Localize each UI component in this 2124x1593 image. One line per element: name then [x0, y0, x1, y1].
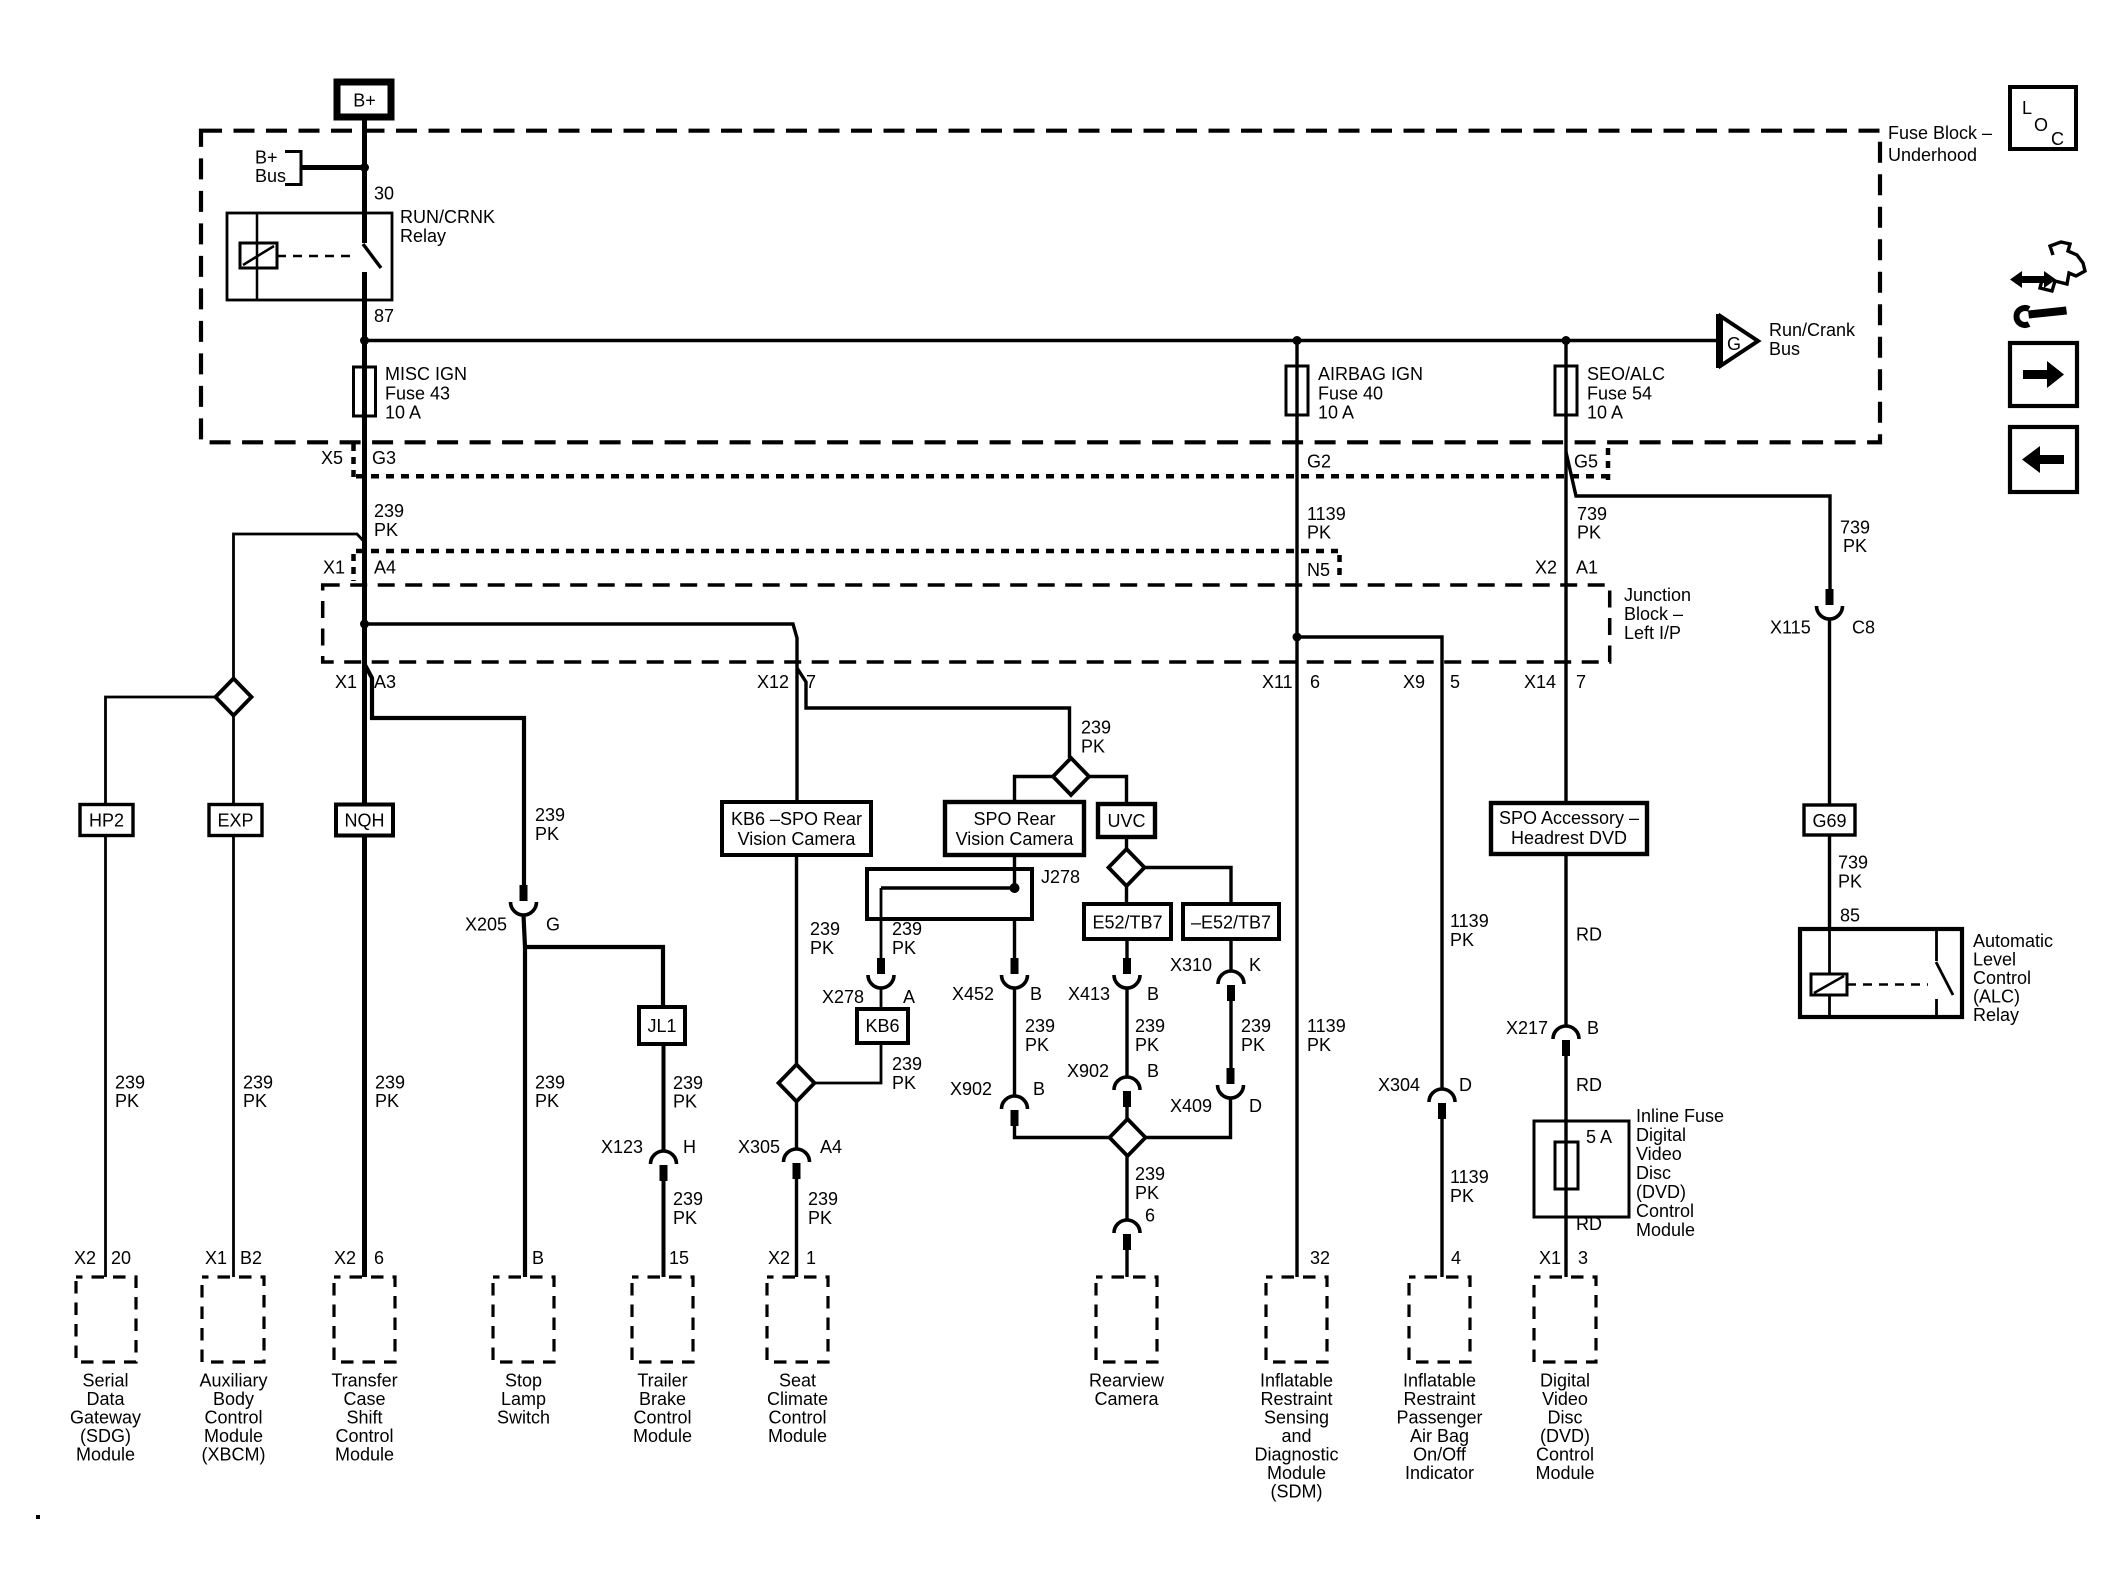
svg-text:739: 739: [1840, 518, 1870, 538]
svg-text:X2: X2: [768, 1248, 790, 1268]
svg-text:Module: Module: [335, 1445, 394, 1465]
svg-text:J278: J278: [1041, 867, 1080, 887]
svg-text:SEO/ALC: SEO/ALC: [1587, 364, 1665, 384]
junction block left I/P dashed box: [323, 585, 1610, 662]
svg-text:Headrest DVD: Headrest DVD: [1511, 828, 1627, 848]
NQH box: [336, 805, 393, 836]
fuse block underhood dashed box: [201, 131, 1880, 443]
svg-text:Trailer: Trailer: [637, 1371, 687, 1391]
svg-text:Digital: Digital: [1636, 1125, 1686, 1145]
UVC box: [1098, 804, 1155, 837]
svg-text:Module: Module: [768, 1426, 827, 1446]
svg-text:X452: X452: [952, 984, 994, 1004]
svg-text:Restraint: Restraint: [1403, 1389, 1475, 1409]
svg-text:X1: X1: [1539, 1248, 1561, 1268]
svg-text:X217: X217: [1506, 1018, 1548, 1038]
svg-text:Video: Video: [1636, 1144, 1682, 1164]
junction dot airbag branch: [1293, 633, 1302, 642]
ALC relay switch: [1936, 929, 1953, 1017]
wire: J278 main output down to X452: [1013, 919, 1016, 959]
svg-text:X115: X115: [1770, 618, 1811, 638]
wire 739 PK label (ALC branch): [1840, 518, 1870, 557]
svg-text:X1: X1: [205, 1248, 227, 1268]
svg-text:(SDM): (SDM): [1271, 1482, 1323, 1502]
diamond seat splice: [779, 1065, 815, 1102]
SPO accessory headrest DVD box: [1491, 803, 1647, 854]
svg-text:PK: PK: [808, 1208, 832, 1228]
wire: rearview connector to module: [1125, 1248, 1128, 1277]
svg-text:15: 15: [669, 1248, 689, 1268]
fuse 40 label: [1318, 364, 1423, 423]
svg-text:Lamp: Lamp: [501, 1389, 546, 1409]
wire: headrest DVD box down to X217: [1564, 854, 1567, 1026]
junction dot seo tap: [1562, 336, 1571, 345]
wire: diamond to HP2: [106, 697, 217, 804]
svg-text:239: 239: [375, 1073, 405, 1093]
svg-text:UVC: UVC: [1107, 811, 1145, 831]
wire: JL1 down to X123: [662, 1044, 666, 1151]
svg-text:PK: PK: [892, 1073, 916, 1093]
svg-text:Inflatable: Inflatable: [1260, 1371, 1333, 1391]
svg-text:X1: X1: [335, 672, 357, 692]
svg-text:B+: B+: [255, 148, 278, 168]
svg-text:6: 6: [1145, 1206, 1155, 1226]
G2 label: [1307, 452, 1331, 472]
svg-text:RD: RD: [1576, 925, 1602, 945]
X5 G3 labels: [321, 448, 396, 468]
svg-text:PK: PK: [1307, 523, 1331, 543]
junction dot in junction block: [360, 620, 369, 629]
svg-text:Body: Body: [213, 1389, 254, 1409]
connector X452 B: [952, 958, 1042, 1004]
svg-text:Fuse Block –: Fuse Block –: [1888, 123, 1992, 143]
wire: relay pin 87 down through MISC IGN fuse to junction block and NQH: [362, 272, 367, 805]
connector X413 B: [1068, 958, 1159, 1004]
svg-text:C: C: [2051, 129, 2064, 149]
wire: SEO/ALC fuse column: [1564, 341, 1567, 805]
exit labels X9 5: [1403, 672, 1460, 692]
svg-text:B2: B2: [240, 1248, 262, 1268]
svg-text:239: 239: [243, 1073, 273, 1093]
svg-text:3: 3: [1578, 1248, 1588, 1268]
svg-text:PK: PK: [673, 1208, 697, 1228]
wire: diamond down to E52/TB7: [1125, 886, 1128, 904]
wire: UVC down to UVC diamond: [1125, 837, 1128, 850]
svg-text:Run/Crank: Run/Crank: [1769, 320, 1856, 340]
dotted connector row 2: [356, 549, 1338, 554]
svg-text:239: 239: [892, 919, 922, 939]
svg-text:7: 7: [1576, 672, 1586, 692]
svg-text:N5: N5: [1307, 560, 1330, 580]
svg-text:Air Bag: Air Bag: [1410, 1426, 1469, 1446]
wire: EXP down to XBCM module: [232, 836, 235, 1278]
wire: KB6 down and left to seat diamond: [815, 1043, 881, 1083]
svg-text:PK: PK: [1081, 737, 1105, 757]
XBCM module box: [202, 1277, 264, 1362]
fuse SEO/ALC 54: [1555, 366, 1577, 415]
inline fuse element: [1555, 1142, 1578, 1189]
pin label B: [532, 1248, 544, 1268]
connector X205 G: [465, 885, 560, 935]
ALC relay label: [1973, 931, 2053, 1025]
inline fuse housing box: [1534, 1121, 1629, 1217]
svg-text:Bus: Bus: [255, 166, 286, 186]
svg-text:PK: PK: [115, 1091, 139, 1111]
svg-text:Restraint: Restraint: [1260, 1389, 1332, 1409]
pin label X1 B2: [205, 1248, 262, 1268]
svg-text:X5: X5: [321, 448, 343, 468]
svg-text:Data: Data: [86, 1389, 125, 1409]
relay dashed actuating link: [277, 255, 357, 258]
svg-text:PK: PK: [1450, 930, 1474, 950]
pin label X2 20: [74, 1248, 131, 1268]
svg-text:239: 239: [892, 1054, 922, 1074]
SPO rear vision camera box: [945, 802, 1084, 855]
SDG module label: [70, 1371, 141, 1465]
svg-text:Gateway: Gateway: [70, 1408, 141, 1428]
svg-text:SPO Rear: SPO Rear: [973, 809, 1055, 829]
pin label 32: [1310, 1248, 1330, 1268]
svg-text:Relay: Relay: [400, 226, 446, 246]
wire: X12 branch jog to camera diamond: [797, 668, 1070, 758]
X1 A4 dotted tick: [351, 554, 356, 581]
svg-text:239: 239: [374, 501, 404, 521]
svg-text:6: 6: [374, 1248, 384, 1268]
svg-text:X12: X12: [757, 672, 789, 692]
diamond rearview splice: [1110, 1119, 1146, 1156]
svg-text:–E52/TB7: –E52/TB7: [1191, 913, 1271, 933]
svg-text:87: 87: [374, 306, 394, 326]
svg-text:10 A: 10 A: [1318, 403, 1354, 423]
svg-text:X1: X1: [323, 558, 345, 578]
svg-text:B: B: [1030, 984, 1042, 1004]
svg-text:PK: PK: [1025, 1035, 1049, 1055]
svg-text:A4: A4: [374, 558, 396, 578]
svg-text:Inline Fuse: Inline Fuse: [1636, 1106, 1724, 1126]
G5 label: [1574, 452, 1598, 472]
X1 A4 labels: [323, 558, 396, 578]
JL1 box: [639, 1007, 685, 1044]
connector row X5 G3 dotted tick: [351, 444, 356, 478]
J278 splice pack: [867, 869, 1032, 919]
svg-text:PK: PK: [1135, 1183, 1159, 1203]
trailer brake module box: [632, 1277, 693, 1362]
wire: X278 to KB6 box: [880, 988, 883, 1009]
svg-text:X413: X413: [1068, 984, 1110, 1004]
wire 239 PK label (X310): [1241, 1016, 1271, 1055]
B+ Bus label: [255, 148, 286, 187]
wire: stop lamp branch from X1 A3: [365, 664, 525, 886]
svg-text:X409: X409: [1170, 1096, 1212, 1116]
svg-text:Control: Control: [1636, 1201, 1694, 1221]
run/crank bus label: [1769, 320, 1856, 359]
svg-text:PK: PK: [243, 1091, 267, 1111]
-E52/TB7 box: [1183, 904, 1279, 939]
stop lamp switch box: [493, 1277, 554, 1362]
relay RUN/CRNK box: [227, 213, 392, 300]
svg-text:X11: X11: [1262, 672, 1293, 692]
svg-text:Seat: Seat: [779, 1371, 816, 1391]
svg-text:1: 1: [806, 1248, 816, 1268]
svg-text:1139: 1139: [1307, 504, 1346, 524]
wire: diamond down to EXP: [232, 716, 235, 805]
wire: J278 left output down to X278: [880, 888, 883, 959]
svg-text:239: 239: [1135, 1016, 1165, 1036]
svg-text:239: 239: [1135, 1164, 1165, 1184]
X2 A1 labels: [1535, 558, 1598, 578]
fuse 54 label: [1587, 364, 1665, 423]
svg-text:Relay: Relay: [1973, 1005, 2019, 1025]
DVD module label: [1535, 1371, 1594, 1484]
wire: X409 to rearview diamond: [1145, 1098, 1231, 1138]
svg-text:Climate: Climate: [767, 1389, 828, 1409]
svg-text:PK: PK: [535, 1091, 559, 1111]
relay label: [400, 207, 495, 246]
connector X305 A4: [738, 1137, 842, 1179]
wire 239 PK label (EXP): [243, 1073, 273, 1112]
svg-text:239: 239: [673, 1073, 703, 1093]
svg-text:B: B: [532, 1248, 544, 1268]
pin label X2 1: [768, 1248, 816, 1268]
connector X902 B mid: [1067, 1061, 1159, 1107]
svg-text:Auxiliary: Auxiliary: [199, 1371, 267, 1391]
wire RD label (mid): [1576, 1075, 1602, 1095]
wire 239 PK label (X278 upper): [892, 919, 922, 958]
N5 dotted tick: [1337, 555, 1342, 581]
svg-text:X310: X310: [1170, 955, 1212, 975]
pin label 15: [669, 1248, 689, 1268]
junction dot run/crank bus: [360, 336, 369, 345]
svg-text:B: B: [1033, 1079, 1045, 1099]
svg-text:Disc: Disc: [1636, 1163, 1671, 1183]
exit labels X12 7: [757, 672, 816, 692]
wire: X902 mid down to rearview diamond: [1125, 1105, 1128, 1121]
svg-text:X2: X2: [1535, 558, 1557, 578]
svg-text:Transfer: Transfer: [331, 1371, 397, 1391]
wire: fuse down to DVD module: [1564, 1189, 1567, 1277]
svg-text:X205: X205: [465, 915, 507, 935]
wire 1139 PK label (SDM): [1307, 1016, 1346, 1055]
svg-text:739: 739: [1577, 504, 1607, 524]
transfer case module label: [331, 1371, 397, 1465]
svg-text:1139: 1139: [1450, 1167, 1489, 1187]
wire: tee to JL1: [525, 947, 663, 1007]
svg-text:RUN/CRNK: RUN/CRNK: [400, 207, 495, 227]
svg-text:239: 239: [535, 1073, 565, 1093]
svg-text:L: L: [2022, 98, 2032, 118]
svg-text:JL1: JL1: [647, 1016, 676, 1036]
svg-text:(XBCM): (XBCM): [202, 1445, 266, 1465]
svg-text:Sensing: Sensing: [1264, 1408, 1329, 1428]
wire: -E52 down to X310: [1229, 939, 1232, 971]
svg-text:PK: PK: [1450, 1186, 1474, 1206]
B+ Bus bracket: [285, 152, 301, 185]
seat climate module label: [767, 1371, 828, 1447]
B+ terminal box: [337, 82, 391, 117]
wire: branch HP2/EXP from X1 A4: [234, 534, 365, 679]
diamond UVC splice: [1109, 849, 1145, 886]
svg-text:Level: Level: [1973, 950, 2016, 970]
wire: diamond right to UVC box: [1089, 777, 1127, 805]
svg-text:Module: Module: [633, 1426, 692, 1446]
pin label 4: [1451, 1248, 1461, 1268]
svg-text:X902: X902: [950, 1079, 992, 1099]
svg-text:PK: PK: [1843, 536, 1867, 556]
svg-text:B: B: [1147, 1061, 1159, 1081]
svg-text:Serial: Serial: [82, 1371, 128, 1391]
relay switch contact arm: [363, 244, 381, 268]
svg-text:Inflatable: Inflatable: [1403, 1371, 1476, 1391]
wire: diamond down to X305: [795, 1102, 798, 1150]
wire 239 PK label (KB6 lower): [892, 1054, 922, 1093]
svg-text:Module: Module: [1535, 1463, 1594, 1483]
svg-text:Brake: Brake: [639, 1389, 686, 1409]
SDM module box: [1266, 1277, 1327, 1362]
wire: E52 down to X413: [1125, 939, 1128, 959]
SDM module label: [1254, 1371, 1338, 1502]
svg-text:(ALC): (ALC): [1973, 987, 2020, 1007]
wire: X310 down to X409: [1229, 999, 1232, 1069]
svg-text:10 A: 10 A: [1587, 403, 1623, 423]
svg-text:(DVD): (DVD): [1540, 1426, 1590, 1446]
svg-text:X14: X14: [1524, 672, 1556, 692]
svg-text:G2: G2: [1307, 452, 1331, 472]
svg-text:239: 239: [1025, 1016, 1055, 1036]
svg-text:PK: PK: [535, 824, 559, 844]
wire: X452 down to X902: [1013, 988, 1016, 1096]
svg-text:239: 239: [810, 919, 840, 939]
svg-text:KB6 –SPO Rear: KB6 –SPO Rear: [731, 809, 862, 829]
wire: X902 left to rearview diamond: [1015, 1124, 1110, 1138]
trailer brake module label: [633, 1371, 692, 1447]
connector X217 B: [1506, 1018, 1599, 1056]
forward arrow box: [2010, 343, 2077, 406]
svg-text:Underhood: Underhood: [1888, 145, 1977, 165]
svg-text:RD: RD: [1576, 1075, 1602, 1095]
svg-text:PK: PK: [673, 1092, 697, 1112]
wire 239 PK label (main): [374, 501, 404, 540]
svg-text:G5: G5: [1574, 452, 1598, 472]
junction dot airbag tap: [1293, 336, 1302, 345]
svg-text:30: 30: [374, 184, 394, 204]
svg-text:Vision Camera: Vision Camera: [956, 829, 1075, 849]
junction block label: [1624, 585, 1691, 643]
svg-text:PK: PK: [810, 938, 834, 958]
wire 239 PK label (JL1): [673, 1073, 703, 1112]
KB6 box: [857, 1009, 908, 1043]
wire: SPO camera box down into J278: [1013, 855, 1016, 888]
relay coil: [240, 243, 277, 268]
svg-text:On/Off: On/Off: [1413, 1445, 1467, 1465]
svg-text:239: 239: [808, 1189, 838, 1209]
fuse AIRBAG IGN 40: [1286, 366, 1308, 415]
connector X409 D: [1170, 1068, 1262, 1116]
svg-text:MISC IGN: MISC IGN: [385, 364, 467, 384]
wire 739 PK label (seo): [1577, 504, 1607, 543]
wire: main feed B+ down to relay contact: [362, 117, 367, 243]
svg-text:85: 85: [1840, 906, 1860, 926]
exit labels X1 A3: [335, 672, 396, 692]
exit labels X14 7: [1524, 672, 1586, 692]
wire 1139 PK label (indicator upper): [1450, 911, 1489, 950]
svg-text:239: 239: [1081, 718, 1111, 738]
svg-text:239: 239: [1241, 1016, 1271, 1036]
svg-text:SPO Accessory –: SPO Accessory –: [1499, 808, 1639, 828]
wire 239 PK label (stop lamp): [535, 1073, 565, 1112]
indicator module box: [1409, 1277, 1470, 1362]
svg-text:32: 32: [1310, 1248, 1330, 1268]
svg-text:Fuse 43: Fuse 43: [385, 384, 450, 404]
svg-text:Control: Control: [335, 1426, 393, 1446]
svg-text:PK: PK: [1577, 523, 1601, 543]
wire 239 PK label (seat lower): [808, 1189, 838, 1228]
wire 239 PK label (X452): [1025, 1016, 1055, 1055]
svg-text:D: D: [1459, 1075, 1472, 1095]
DVD module box: [1534, 1277, 1596, 1362]
fuse block label: [1888, 123, 1992, 165]
svg-text:X304: X304: [1378, 1075, 1420, 1095]
ALC relay box: [1800, 929, 1962, 1017]
stray mark: [36, 1515, 40, 1519]
connector X278 A: [822, 958, 915, 1007]
wire: G69 down to ALC relay: [1828, 835, 1831, 929]
svg-text:10 A: 10 A: [385, 403, 421, 423]
ALC relay coil: [1811, 974, 1847, 995]
rearview camera label: [1089, 1371, 1165, 1410]
connector X902 B left: [950, 1079, 1045, 1126]
svg-text:PK: PK: [374, 520, 398, 540]
svg-text:A1: A1: [1576, 558, 1598, 578]
svg-text:AIRBAG IGN: AIRBAG IGN: [1318, 364, 1423, 384]
svg-text:Fuse 54: Fuse 54: [1587, 384, 1652, 404]
wire: X205 down with JL1 tee: [524, 915, 526, 1277]
svg-text:G69: G69: [1812, 811, 1846, 831]
connector X304 D: [1378, 1075, 1472, 1119]
fuse 43 label: [385, 364, 467, 423]
svg-text:HP2: HP2: [89, 811, 124, 831]
wire: branch to ALC via X115: [1566, 452, 1830, 590]
indicator module label: [1396, 1371, 1482, 1484]
svg-text:Video: Video: [1542, 1389, 1588, 1409]
KB6 SPO rear vision camera box: [722, 802, 871, 855]
wire: X305 down to seat module: [795, 1177, 798, 1277]
wire 239 PK label (NQH): [375, 1073, 405, 1112]
pin 30 label: [374, 184, 394, 204]
svg-text:Module: Module: [1636, 1220, 1695, 1240]
svg-text:739: 739: [1838, 853, 1868, 873]
svg-text:Vision Camera: Vision Camera: [738, 829, 857, 849]
connector X115 C8: [1770, 589, 1875, 638]
service icon double arrow: [2010, 271, 2056, 288]
N5 label: [1307, 560, 1330, 580]
svg-text:A4: A4: [820, 1137, 842, 1157]
svg-text:Module: Module: [1267, 1463, 1326, 1483]
svg-text:E52/TB7: E52/TB7: [1092, 913, 1162, 933]
svg-text:X902: X902: [1067, 1061, 1109, 1081]
svg-text:5 A: 5 A: [1586, 1127, 1612, 1147]
svg-text:X2: X2: [334, 1248, 356, 1268]
svg-text:PK: PK: [892, 938, 916, 958]
wire: junction block horizontal to X12: [365, 624, 798, 662]
wire: seat/KB6 column from X12 down: [795, 662, 798, 802]
svg-text:A: A: [903, 987, 915, 1007]
svg-text:5: 5: [1450, 672, 1460, 692]
svg-text:Stop: Stop: [505, 1371, 542, 1391]
wire RD label (upper): [1576, 925, 1602, 945]
svg-text:A3: A3: [374, 672, 396, 692]
svg-text:EXP: EXP: [217, 811, 253, 831]
svg-text:B: B: [1587, 1018, 1599, 1038]
